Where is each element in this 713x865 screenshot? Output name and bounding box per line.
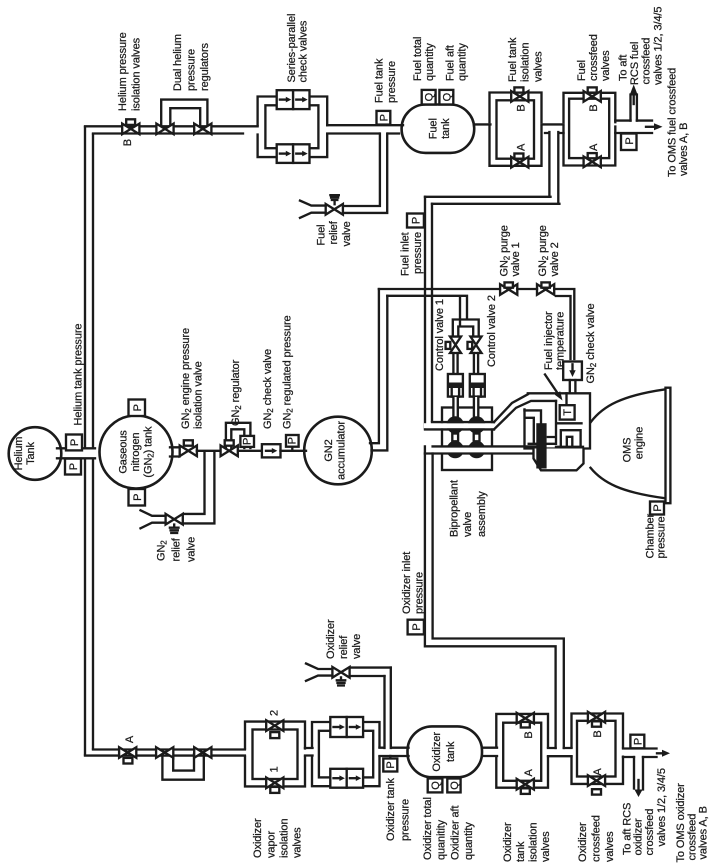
series-parallel check valves (fuel) outer loop [258,97,328,158]
sensor T fuel injector temperature [565,393,567,405]
sensor P oxidizer crossfeed [630,735,644,749]
check valve box oxidizer bottom 2 [347,769,363,788]
wire oxidizer feed from crossfeed link up and across [425,446,564,748]
oxidizer vapor isolation valves inner loop [253,730,298,780]
svg-text:valves: valves [600,50,612,81]
arrow to aft RCS oxidizer crossfeed [634,790,642,798]
sensor P GN2 tank bottom [129,489,146,506]
svg-text:isolation: isolation [520,43,532,82]
sensor P helium tank lower [65,459,81,475]
svg-text:GN2 check valve: GN2 check valve [585,304,598,384]
svg-text:Oxidizer: Oxidizer [431,732,443,772]
wire fuel isolation to crossfeed link [542,123,564,125]
valve helium regulator B2 [194,124,211,135]
wire oxidizer relief riser [385,668,391,748]
check valve box oxidizer top 2 [347,717,363,737]
oxidizer tank isolation valves outer loop [496,714,548,788]
svg-text:valve 2: valve 2 [549,242,561,276]
svg-text:tank: tank [515,841,527,862]
GN2 tank [100,416,173,489]
flare inlet GN2 relief [141,510,166,528]
series-parallel check valves (oxidizer) inner loop [319,731,373,778]
svg-text:P: P [411,623,423,630]
arrow to OMS oxidizer crossfeed [657,752,662,754]
valve fuel relief [326,204,343,215]
svg-text:Fuel inlet: Fuel inlet [400,232,412,276]
svg-text:pressure: pressure [186,49,198,91]
sensor P oxidizer inlet pressure [408,620,424,635]
oxidizer tank isolation valves inner loop [503,723,541,781]
svg-text:P: P [132,404,144,411]
sensor Q oxidizer aft quantity [447,779,460,793]
svg-text:A: A [588,143,600,151]
check valve box fuel top 2 [293,90,309,109]
fuel crossfeed valves outer loop [564,93,616,166]
svg-text:P: P [132,494,144,501]
wire helium manifold outer line (A/B pair) [84,127,86,754]
svg-text:accumulator: accumulator [336,421,348,480]
svg-text:GN2: GN2 [323,439,335,461]
valve helium regulator A2 [194,747,211,758]
svg-text:valves 1/2, 3/4/5: valves 1/2, 3/4/5 [653,7,665,85]
svg-text:pressure: pressure [656,517,668,559]
wire oxidizer tank inlet channel [380,748,409,756]
wire GN2 tank outlet channel [170,447,180,456]
svg-text:2: 2 [269,710,281,716]
fuel crossfeed valves inner loop [569,99,609,158]
oxidizer crossfeed valves inner loop [577,721,616,777]
svg-text:valve: valve [462,512,474,537]
svg-text:Oxidizer tank: Oxidizer tank [385,778,397,841]
check valve box fuel top 1 [277,90,293,109]
valve oxidizer tank isolation B [517,713,534,724]
flare inlet fuel relief [300,201,326,218]
wire GN2 line to accumulator [281,450,307,452]
valve fuel crossfeed B [584,91,601,102]
wire fuel tank inlet channel top wall [327,124,403,126]
svg-text:Fuel injector: Fuel injector [543,311,555,370]
wire control valve 1 stem [453,353,457,374]
svg-text:valves A, B: valves A, B [698,806,710,859]
wire fuel channel through balls [424,423,494,428]
svg-text:P: P [385,761,397,768]
svg-text:quantity: quantity [424,43,436,81]
svg-text:Q: Q [449,781,461,790]
wire GN2 accumulator outlet riser [370,289,387,450]
GN2 accumulator [304,417,372,485]
svg-text:relief: relief [338,635,350,659]
injector plate (black bar) [536,423,546,468]
svg-text:OMS: OMS [622,438,634,463]
svg-text:valves: valves [533,51,545,82]
wire fuel channel diagonal to injector [494,394,556,429]
svg-text:B: B [592,730,604,737]
svg-text:A: A [124,735,136,743]
svg-text:pressure: pressure [414,572,426,614]
svg-text:regulators: regulators [199,42,211,91]
svg-text:crossfeed: crossfeed [644,809,656,856]
svg-text:quantity: quantity [457,43,469,81]
svg-text:GN2 check valve: GN2 check valve [262,349,275,429]
vent symbol fuel relief [330,195,338,204]
dual helium pressure regulators (A) bypass loops [162,754,203,780]
svg-text:B: B [515,104,527,111]
valve fuel tank isolation A [511,157,528,168]
svg-text:valves A, B: valves A, B [678,123,690,176]
check valve box fuel bottom 1 [277,144,293,163]
svg-text:isolation: isolation [528,823,540,862]
check valve box oxidizer bottom 1 [330,769,346,788]
fuel tank isolation valves inner loop [497,100,535,158]
arrow pointer fuel injector temperature [545,375,558,394]
valve control 2 [471,337,482,353]
valve oxidizer vapor isolation 1 [266,778,283,789]
wire GN2 purge line to engine [517,289,574,359]
svg-text:oxidizer: oxidizer [633,818,645,856]
svg-text:P: P [69,439,81,446]
svg-text:Oxidizer: Oxidizer [325,619,337,659]
svg-text:valves: valves [604,831,616,862]
piston control valve 2 [470,374,485,397]
svg-text:P: P [632,738,644,745]
check valve box oxidizer top 1 [330,717,346,737]
svg-text:Control valve 1: Control valve 1 [434,299,446,371]
wire helium B-branch lower line [93,132,243,134]
GN2 check valve (regulator outlet) [262,444,281,457]
svg-text:temperature: temperature [555,312,567,370]
svg-text:Q: Q [441,92,453,101]
control valve feed bridge outer [453,320,479,338]
svg-text:Helium pressure: Helium pressure [117,32,129,111]
svg-text:Tank: Tank [25,441,37,464]
valve fuel tank isolation B [511,91,528,102]
svg-text:isolation valves: isolation valves [131,37,143,111]
svg-text:engine: engine [634,427,646,459]
svg-text:A: A [523,769,535,777]
svg-text:isolation valve: isolation valve [193,361,205,429]
wire fuel engine-feed vertical to engine [425,197,432,429]
bipropellant valve assembly box [442,408,492,471]
sensor P oxidizer tank pressure [389,756,391,759]
svg-text:nitrogen: nitrogen [130,433,142,472]
svg-text:vapor: vapor [266,831,278,858]
svg-text:Q: Q [424,92,436,101]
sensor P GN2 tank top [129,400,146,417]
wire GN2 control feed upper (to purge line) [379,288,501,290]
valve oxidizer tank isolation A [517,779,534,790]
wire oxidizer crossfeed output channel [623,749,657,758]
valve oxidizer relief [332,667,349,678]
valve helium pressure isolation A [119,747,136,758]
fuel tank [402,105,475,153]
valve GN2 purge 1 [500,284,517,295]
sensor P fuel inlet pressure [407,214,424,228]
flare inlet oxidizer relief [306,664,332,681]
svg-text:isolation: isolation [279,819,291,858]
wire control valve 2 stem [474,353,478,374]
svg-text:relief: relief [328,220,340,244]
wire GN2 line to regulator [197,450,262,452]
svg-text:Dual helium: Dual helium [172,34,184,91]
svg-text:Oxidizer: Oxidizer [577,822,589,862]
svg-text:B: B [588,104,600,111]
valve helium pressure isolation B [122,124,139,135]
sensor P fuel crossfeed [621,134,637,151]
svg-text:T: T [562,409,574,416]
oxidizer vapor isolation valves outer loop [245,722,305,787]
series-parallel check valves (fuel) inner loop [265,105,318,148]
svg-text:Oxidizer aft: Oxidizer aft [450,806,462,860]
svg-text:P: P [286,437,298,444]
svg-text:P: P [241,438,253,445]
arrow to aft RCS fuel crossfeed [630,85,638,96]
svg-text:B: B [523,731,535,738]
sensor Q fuel aft quantity [439,90,453,105]
sensor Q oxidizer total quantity [428,779,443,793]
svg-text:valves: valves [540,831,552,862]
sensor P fuel tank pressure [377,111,391,125]
svg-text:valves 1/2, 3/4/5: valves 1/2, 3/4/5 [656,768,668,846]
ball valve stems [452,434,458,442]
oxidizer crossfeed valves outer loop [572,714,624,784]
nozzle bell lower contour [591,468,666,499]
svg-text:P: P [378,114,390,121]
svg-text:To aft: To aft [618,55,630,81]
svg-text:RCS fuel: RCS fuel [629,42,641,85]
helium tank [9,427,62,480]
wire oxidizer relief line [350,668,391,676]
svg-text:relief: relief [171,537,183,561]
svg-text:Fuel total: Fuel total [412,37,424,81]
svg-text:Oxidizer: Oxidizer [502,822,514,862]
valve GN2 engine pressure isolation [180,446,197,457]
svg-text:pressure: pressure [400,799,412,841]
wire GN2 relief branch channel [184,452,215,523]
svg-text:Helium: Helium [13,437,25,471]
svg-text:Oxidizer total: Oxidizer total [422,797,434,860]
wire helium A-branch lower line [85,754,245,756]
sensor P GN2 regulated pressure [291,446,293,451]
svg-text:GN2 regulator: GN2 regulator [230,359,243,426]
wire to aft RCS fuel riser channel [631,95,637,121]
svg-text:P: P [68,463,80,470]
svg-text:Fuel: Fuel [428,118,440,139]
svg-text:crossfeed: crossfeed [641,38,653,85]
svg-text:Fuel: Fuel [316,225,328,246]
check valve box fuel bottom 2 [293,144,309,163]
svg-text:P: P [624,137,636,144]
svg-text:tank: tank [440,118,452,139]
svg-text:crossfeed: crossfeed [591,815,603,862]
series-parallel check valves (oxidizer) outer loop [312,722,380,786]
svg-text:check valves: check valves [298,20,310,82]
svg-text:Fuel: Fuel [576,60,588,81]
valve control 1 [450,337,461,353]
GN2 regulator bypass loops [226,423,251,448]
svg-text:Gaseous: Gaseous [118,430,130,474]
wire to aft RCS oxidizer branch channel [634,757,643,790]
dual helium pressure regulators (B) bypass loops [161,100,207,127]
valve GN2 purge 2 [537,284,554,295]
svg-text:pressure: pressure [386,61,398,103]
valve helium regulator B1 [156,124,173,135]
wire fuel relief riser [345,134,387,213]
svg-text:Bipropellant: Bipropellant [449,480,461,537]
wire fuel engine-feed tap down [549,132,558,203]
wire GN2 into injector [570,380,576,393]
svg-text:Control valve 2: Control valve 2 [486,295,498,367]
svg-text:Fuel aft: Fuel aft [445,45,457,81]
svg-text:1: 1 [269,766,281,772]
svg-text:tank: tank [445,741,457,762]
vent symbol GN2 relief [170,525,179,533]
wire helium tank outlet channel [57,448,95,458]
svg-text:Fuel tank: Fuel tank [507,37,519,82]
GN2 check valve at engine [563,362,582,381]
svg-text:valve: valve [186,537,198,562]
wire vapor-iso to check valves link [305,748,313,756]
vent symbol oxidizer relief [337,677,345,685]
svg-text:crossfeed: crossfeed [588,34,600,81]
combustion chamber [534,449,584,471]
svg-text:Oxidizer: Oxidizer [252,818,264,858]
wire oxidizer isolation to crossfeed link [548,748,572,756]
wire oxidizer tank to isolation valves [482,748,497,756]
svg-text:P: P [652,504,664,511]
valve GN2 relief [166,514,183,525]
nozzle bell upper contour [591,389,666,422]
valve oxidizer vapor isolation 2 [266,720,283,731]
arrow to OMS fuel crossfeed [646,126,654,128]
sensor P GN2 regulator [240,436,254,447]
svg-text:(GN2) tank: (GN2) tank [143,426,156,478]
svg-text:GN2 engine pressure: GN2 engine pressure [180,328,193,429]
svg-text:valve 1: valve 1 [510,242,522,276]
control valve feed bridge inner [458,327,473,338]
wire helium A-branch upper line [93,748,245,750]
ball valves (4) [447,416,464,433]
oxidizer tank [408,726,483,777]
svg-text:P: P [411,217,423,224]
svg-text:quanitity: quanitity [436,819,448,860]
svg-text:Oxidizer inlet: Oxidizer inlet [401,552,413,614]
injector maze passages [525,401,584,447]
wire GN2 control feed lower [387,296,467,326]
sensor P chamber pressure [650,502,664,515]
valve GN2 regulator [221,446,238,457]
svg-text:B: B [122,139,134,146]
svg-text:Q: Q [430,781,442,790]
svg-text:Series-parallel: Series-parallel [286,14,298,83]
nozzle exit plane [666,388,671,504]
OMS engine injector head box [525,393,591,448]
valve fuel crossfeed A [584,157,601,168]
svg-text:A: A [592,768,604,776]
piston control valve 1 [448,374,463,397]
svg-text:assembly: assembly [476,491,488,537]
svg-text:valve: valve [351,634,363,659]
svg-text:valve: valve [341,221,353,246]
fuel tank isolation valves outer loop [490,93,542,166]
svg-text:valves: valves [292,827,304,858]
wire helium B-branch upper line [85,125,258,127]
valve oxidizer crossfeed A [588,775,605,786]
valve helium regulator A1 [156,747,173,758]
svg-text:To OMS oxidizer: To OMS oxidizer [675,783,687,863]
valve oxidizer crossfeed B [588,712,605,723]
svg-text:quantity: quantity [463,822,475,860]
sensor Q fuel total quantity [422,90,436,105]
svg-text:A: A [515,143,527,151]
wire fuel engine-feed horizontal [425,197,559,204]
wire ball valve rods [453,397,478,417]
svg-text:Fuel tank: Fuel tank [374,58,386,103]
wire fuel crossfeed output channel [615,121,652,133]
sensor P helium tank upper [66,435,82,451]
wire helium manifold inner line [92,135,94,749]
wire fuel tank inlet channel bottom wall [327,132,399,134]
svg-text:Helium tank pressure: Helium tank pressure [73,324,85,426]
svg-text:pressure: pressure [412,232,424,274]
wire fuel tank to isolation valves [474,123,490,125]
wire oxidizer channel through balls [424,447,538,452]
svg-text:To OMS fuel crossfeed: To OMS fuel crossfeed [667,68,679,177]
